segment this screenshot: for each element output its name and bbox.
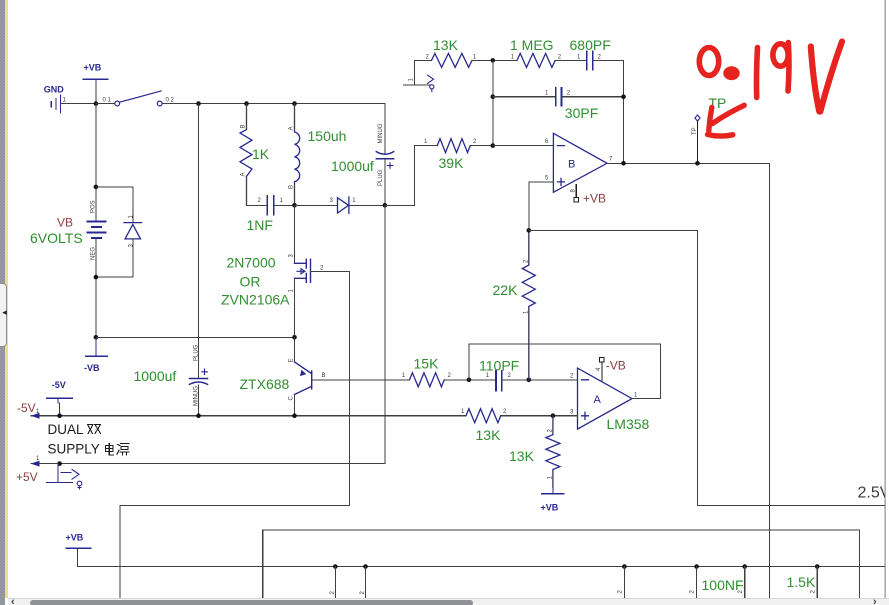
svg-text:+VB: +VB <box>541 503 559 513</box>
junction battery/diode top <box>94 185 99 190</box>
wire 13K to summing node <box>472 59 517 61</box>
svg-text:6VOLTS: 6VOLTS <box>30 230 83 246</box>
junction bus stub 6 (1.5K) <box>815 564 820 569</box>
power flag +VB (bottom left) <box>66 548 91 553</box>
transistor Q2 ZTX688 (PNP) <box>295 362 312 395</box>
svg-text:-VB: -VB <box>606 359 626 373</box>
junction 13K/1MEG node <box>491 58 496 63</box>
svg-text:0 2: 0 2 <box>166 98 175 104</box>
wire +VB to node <box>95 85 97 104</box>
svg-text:+5V: +5V <box>16 470 38 484</box>
test point TP <box>695 115 700 121</box>
wire 22K leads (dark overlay) <box>528 230 530 379</box>
power flag -5V <box>47 398 73 415</box>
op-amp U1:B LM358 <box>553 133 607 192</box>
junction +5V flag / rail <box>57 461 62 466</box>
svg-text:2N7000: 2N7000 <box>227 255 276 271</box>
ground symbol GND <box>51 95 60 112</box>
capacitor 110PF <box>496 371 502 391</box>
junction output/TP <box>695 161 700 166</box>
svg-text:13K: 13K <box>433 37 459 53</box>
capacitor 30PF <box>556 88 562 106</box>
wire +VB flag to bus <box>78 554 885 567</box>
wire MOSFET gate to down-run <box>311 271 350 505</box>
svg-text:TP: TP <box>692 127 698 135</box>
wire 39K leads <box>430 145 493 147</box>
junction pin5/22K <box>527 228 532 233</box>
svg-text:15K: 15K <box>414 356 440 372</box>
wire 13K vertical leads (dark overlay) <box>552 416 554 488</box>
svg-text:13K: 13K <box>476 427 502 443</box>
junction bus stub 4 (100NF) <box>694 564 699 569</box>
wire top rail down to C-plug (x=198.5) <box>198 104 200 416</box>
svg-text:DUAL: DUAL <box>48 422 85 437</box>
svg-text:1000uf: 1000uf <box>331 158 374 174</box>
resistor 13K (horizontal, on pin3 rail) <box>466 409 501 423</box>
svg-text:680PF: 680PF <box>570 37 611 53</box>
port -5v (rotated connector glyph) <box>428 75 434 91</box>
svg-text:MINUG: MINUG <box>378 123 384 143</box>
power flag +VB (below 13K) <box>541 488 563 494</box>
wire stub 6 <box>816 567 818 598</box>
wire 30PF left <box>493 96 555 98</box>
svg-text:39K: 39K <box>439 155 465 171</box>
wire 13K to -5v port <box>403 60 431 85</box>
svg-text:0 1: 0 1 <box>103 98 112 104</box>
svg-text:C: C <box>289 396 295 401</box>
resistor 15K <box>410 373 445 387</box>
junction -5V flag / rail <box>57 413 62 418</box>
svg-text:POS: POS <box>91 200 97 213</box>
svg-text:MINUG: MINUG <box>193 386 199 406</box>
capacitor 1000uf (top, electrolytic) <box>376 152 393 169</box>
capacitor 680PF <box>587 52 593 70</box>
svg-text:A: A <box>594 394 602 406</box>
resistor 1 MEG <box>517 53 555 67</box>
junction source/-VB rail <box>292 335 297 340</box>
svg-text:B: B <box>289 185 295 189</box>
svg-text:A: A <box>241 172 247 176</box>
port symbol at +5V <box>61 470 82 490</box>
svg-text:OR: OR <box>240 274 261 290</box>
wire 15K to 110PF node <box>444 379 496 381</box>
svg-text:13K: 13K <box>509 448 535 464</box>
node diode/1000uf junction <box>383 203 388 208</box>
svg-text:SUPPLY: SUPPLY <box>48 442 100 457</box>
wire opamp A output + feedback box <box>469 344 661 399</box>
junction top rail / 150uh <box>292 101 297 106</box>
capacitor 1NF <box>267 196 274 215</box>
junction -VB node <box>94 335 99 340</box>
wire 1K leads (dark overlay) <box>246 104 248 206</box>
wire 1MEG to 680PF <box>555 59 586 61</box>
junction 30PF/output drop <box>621 94 626 99</box>
wire 22K node right and down <box>529 230 698 505</box>
wire -VB rail to transistor chain <box>96 336 294 338</box>
wire pin6 <box>493 145 554 147</box>
power flag +VB (top left) <box>83 79 107 85</box>
wire mid drop (x=262.7) <box>262 530 264 598</box>
junction ZTX collector / -5V rail <box>292 413 297 418</box>
resistor R 1K (vertical) <box>240 104 252 206</box>
wire diode node down to +5V rail <box>384 205 386 463</box>
wire diode to 1000uf node <box>350 204 385 206</box>
capacitor 1000uf (lower left, electrolytic) <box>190 369 208 384</box>
wire 150uh leads (dark overlay) <box>294 104 296 206</box>
arrow +5V <box>31 461 40 467</box>
wire 150uh node down to MOSFET drain <box>294 205 296 263</box>
junction 1000uf / -5V rail <box>196 413 201 418</box>
svg-text:-VB: -VB <box>84 363 100 373</box>
wire summing node down <box>492 60 494 145</box>
wire pin5 to 22K node <box>529 182 554 231</box>
wire TP to output <box>697 121 699 163</box>
wire 2.5V rail <box>698 505 885 507</box>
wire opamp B output <box>607 163 770 597</box>
svg-text:PLUG: PLUG <box>193 344 199 361</box>
svg-text:+VB: +VB <box>66 533 84 543</box>
wire MOSFET source down to -VB rail <box>294 278 296 337</box>
CJK glyph shuang <box>88 425 101 434</box>
wire battery vertical <box>95 104 97 221</box>
wire top rail corner down to 1000uf top cap <box>384 104 386 206</box>
junction 110PF/22K <box>527 378 532 383</box>
net -5V arrow <box>31 413 40 419</box>
svg-text:A: A <box>289 126 295 130</box>
wire to diode D2 top <box>96 187 133 222</box>
svg-text:-5V: -5V <box>52 380 66 390</box>
svg-text:22K: 22K <box>493 282 519 298</box>
svg-text:B: B <box>241 124 247 128</box>
junction bus stub 1 <box>333 564 338 569</box>
svg-text:150uh: 150uh <box>308 128 347 144</box>
svg-text:+VB: +VB <box>583 192 606 206</box>
wire pin3 rail (from -5V arrow to opamp) <box>31 415 578 417</box>
svg-text:VB: VB <box>57 216 73 230</box>
battery VB <box>88 222 106 239</box>
wire gate run corner to left drop <box>120 506 350 598</box>
wire stub 5 <box>744 567 746 598</box>
junction 15K/110PF/feedback <box>467 378 472 383</box>
resistor 13K (top) <box>432 53 473 67</box>
wire ZTX base to 15K <box>312 379 410 381</box>
net +5V arrow and rail <box>31 463 385 465</box>
wire stub 3 <box>623 567 625 598</box>
diode D2 (vertical) <box>124 223 142 239</box>
svg-text:30PF: 30PF <box>565 105 598 121</box>
junction output/feedback <box>621 161 626 166</box>
svg-text:2.5V: 2.5V <box>858 485 889 502</box>
svg-text:B: B <box>568 159 575 171</box>
node 1NF/150uh/diode junction <box>292 203 297 208</box>
annotation 0.19V (red handwriting) <box>699 42 842 112</box>
wire rail to ZTX emitter <box>294 337 296 362</box>
svg-text:1NF: 1NF <box>247 217 273 233</box>
svg-text:ZVN2106A: ZVN2106A <box>221 292 290 308</box>
resistor 13K (vertical) <box>546 416 560 488</box>
wire ZTX collector to -5V rail <box>294 395 296 416</box>
op-amp U1:A LM358 <box>578 368 633 429</box>
resistor 22K (vertical) <box>522 230 535 379</box>
svg-text:110PF: 110PF <box>479 358 519 374</box>
wire 1K bottom to 1NF to node <box>247 204 295 206</box>
svg-text:-5V: -5V <box>17 401 36 415</box>
junction 30PF tap <box>491 94 496 99</box>
inductor 150uh <box>295 104 300 206</box>
svg-text:ZTX688: ZTX688 <box>240 376 290 392</box>
wire switch to top rail <box>162 103 385 105</box>
svg-text:1.5K: 1.5K <box>787 574 816 590</box>
svg-text:B: B <box>322 373 326 379</box>
horizontal scrollbar <box>8 598 889 605</box>
canvas right border <box>885 0 886 598</box>
junction bus stub 3 <box>622 564 627 569</box>
svg-text:1K: 1K <box>252 146 270 162</box>
power flag -VB <box>86 337 108 356</box>
junction 39K/pin6 <box>491 143 496 148</box>
power flag +5V <box>47 464 73 483</box>
CJK glyphs dian yuan <box>106 444 130 456</box>
svg-text:PLUG: PLUG <box>378 169 384 186</box>
wire stub 1 <box>334 567 336 598</box>
wire node to switch <box>96 103 114 105</box>
junction battery/diode bottom <box>94 275 99 280</box>
window chrome: left dock strip <box>0 0 5 605</box>
wire 110PF to opamp A pin2 <box>503 379 578 381</box>
svg-text:GND: GND <box>44 84 65 94</box>
wire 30PF right to output drop <box>562 96 623 98</box>
junction pin3 rail / 13K vertical <box>551 413 556 418</box>
transistor Q1 2N7000 (N-MOSFET) <box>295 259 311 282</box>
wire stub 4 <box>696 567 698 598</box>
resistor 39K <box>437 139 470 153</box>
wire 680PF to output drop <box>594 60 624 163</box>
wire diode node up to 39K <box>385 146 431 206</box>
junction bus stub 2 <box>363 564 368 569</box>
svg-text:LM358: LM358 <box>607 416 650 432</box>
node junction at +VB/GND/battery <box>94 101 99 106</box>
wire node to diode D1 <box>295 204 338 206</box>
label 2N7000 OR ZVN2106A <box>221 255 290 308</box>
junction bus stub 5 <box>742 564 747 569</box>
svg-text:1 MEG: 1 MEG <box>510 37 554 53</box>
diode D1 (horizontal) <box>338 197 349 214</box>
power pin 8 with +VB terminal <box>574 185 579 202</box>
wire GND to node <box>62 103 96 105</box>
wire long rail y=529.8 <box>263 530 860 598</box>
svg-text:+VB: +VB <box>84 63 102 73</box>
junction top rail / 1K <box>244 101 249 106</box>
wire diode bottom to battery bottom <box>96 239 133 337</box>
svg-text:E: E <box>289 358 295 362</box>
annotation arrow to TP (red) <box>708 105 745 136</box>
switch SW1 <box>115 91 162 106</box>
wire stub 2 <box>365 567 367 598</box>
power pin 4 with -VB terminal <box>600 358 605 381</box>
svg-text:1000uf: 1000uf <box>134 368 177 384</box>
junction top rail / 1000uf drop <box>196 101 201 106</box>
